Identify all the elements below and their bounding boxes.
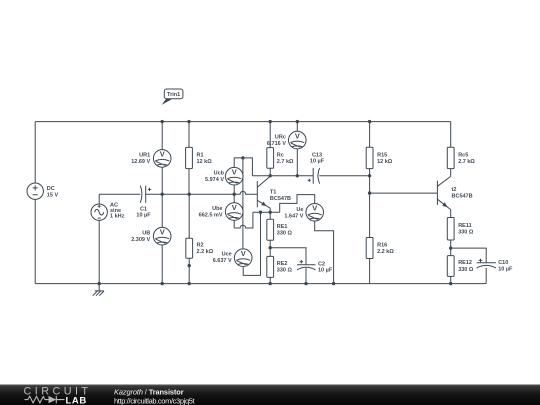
svg-text:R2: R2: [197, 243, 204, 249]
resistor RE2 330 Ohm: [267, 256, 293, 277]
wire Ue bottom loop: [315, 221, 334, 284]
svg-text:662.5 mV: 662.5 mV: [199, 213, 223, 219]
junction dots base node: [161, 193, 236, 196]
svg-text:BC547B: BC547B: [452, 194, 473, 200]
wire R1 leads: [188, 122, 190, 195]
svg-text:15 V: 15 V: [47, 192, 59, 198]
voltmeter Ube 662.5 mV: [199, 203, 243, 221]
transistor t2 BC547B: [437, 176, 472, 209]
svg-text:12.69 V: 12.69 V: [131, 159, 150, 165]
wire R2 leads: [188, 194, 190, 283]
svg-text:12 kΩ: 12 kΩ: [377, 159, 393, 165]
DC source V1 15 V: [27, 183, 58, 199]
annotation bubble Trin1: [162, 89, 183, 105]
wire RE11-RE12 junction to C10: [451, 248, 487, 263]
svg-text:Rc5: Rc5: [458, 152, 468, 158]
wire Rc5 to t2 collector: [450, 169, 452, 177]
svg-text:Ue: Ue: [296, 207, 303, 213]
junction dot RE1-RE2 node: [269, 246, 272, 249]
svg-text:DC: DC: [47, 186, 55, 192]
junction dots top bus: [161, 120, 372, 123]
svg-text:V: V: [295, 131, 300, 140]
voltmeter Ucb 5.974 V: [205, 167, 243, 185]
transistor T1 BC547B: [257, 176, 291, 208]
capacitor C10 10 uF: [477, 259, 513, 273]
svg-text:UR1: UR1: [139, 153, 150, 159]
svg-text:R1: R1: [197, 152, 204, 158]
svg-text:V: V: [232, 167, 237, 176]
resistor R16 2.2 kOhm: [366, 238, 394, 259]
voltmeter UB 2.309 V: [131, 227, 171, 245]
svg-text:12 kΩ: 12 kΩ: [197, 159, 213, 165]
wire C13 to R15: [319, 175, 369, 177]
resistor RE11 330 Ohm: [447, 218, 474, 241]
wire RE2 to bottom bus: [269, 277, 271, 283]
wire C10 bottom lead: [485, 268, 487, 284]
wire Uce bottom loop: [243, 212, 260, 275]
wire UB leads: [161, 194, 163, 283]
wire T1 emitter to RE1: [269, 208, 271, 219]
svg-text:UB: UB: [142, 231, 150, 237]
footer url text: [114, 397, 195, 405]
svg-text:Ube: Ube: [212, 206, 222, 212]
voltmeter URc 6.716 V: [267, 131, 306, 149]
junction dots emitter node: [259, 211, 272, 214]
svg-text:LAB: LAB: [66, 395, 87, 405]
wire left rail lower: [34, 199, 36, 283]
svg-text:1 kHz: 1 kHz: [110, 213, 125, 219]
svg-text:Rc: Rc: [277, 153, 284, 159]
resistor RE12 330 Ohm: [447, 256, 474, 277]
wire R16 bottom lead: [369, 259, 371, 284]
svg-text:URc: URc: [275, 135, 286, 141]
svg-text:R16: R16: [377, 242, 387, 248]
wire top bus: [35, 121, 451, 123]
junction dot RE11-RE12 node: [449, 246, 452, 249]
wire bottom bus: [35, 283, 486, 285]
wire t2 emitter to RE11: [450, 210, 452, 218]
svg-text:T1: T1: [270, 190, 276, 196]
junction dot t2 base node: [368, 191, 371, 194]
footer bar: [0, 384, 540, 405]
resistor RE1 330 Ohm: [267, 219, 293, 240]
svg-text:V: V: [232, 203, 237, 212]
svg-text:V: V: [160, 227, 165, 236]
svg-text:C2: C2: [318, 261, 325, 267]
wire RE11 to RE12: [450, 240, 452, 256]
wire emitter to Ue staircase: [280, 195, 315, 213]
svg-text:10 µF: 10 µF: [318, 267, 333, 273]
svg-text:RE1: RE1: [277, 224, 288, 230]
voltmeter Ue 1.647 V: [284, 204, 323, 222]
capacitor C2 10 uF: [297, 260, 333, 274]
voltmeter Uce 6.637 V: [213, 249, 252, 267]
resistor Rc5 2.7 kOhm: [447, 147, 475, 168]
wire URc leads: [296, 122, 298, 176]
svg-text:Trin1: Trin1: [167, 92, 180, 98]
svg-text:330 Ω: 330 Ω: [458, 267, 474, 273]
svg-text:Ucb: Ucb: [214, 171, 225, 177]
svg-text:V: V: [312, 204, 317, 213]
wire RE1 to RE2: [269, 240, 271, 256]
capacitor C13 10 uF: [308, 152, 325, 183]
svg-text:C13: C13: [312, 152, 322, 158]
wire C2 bottom lead: [305, 268, 307, 284]
wire left rail upper: [34, 122, 36, 183]
wire Ucb top measurement loop: [234, 158, 252, 176]
wire R15 to R16: [369, 169, 371, 238]
svg-text:V: V: [160, 150, 165, 159]
wire Uce top lead: [242, 158, 244, 249]
svg-text:Kazgroth / Transistor: Kazgroth / Transistor: [114, 387, 184, 396]
wire AC source bottom lead: [98, 220, 100, 283]
node dot R2 bottom lead: [188, 264, 191, 267]
svg-text:2.2 kΩ: 2.2 kΩ: [377, 249, 394, 255]
capacitor C1 10 uF: [136, 186, 151, 219]
wire Rc5 top lead: [450, 122, 452, 148]
svg-text:10 µF: 10 µF: [136, 213, 151, 219]
svg-text:C10: C10: [498, 260, 508, 266]
ground: [93, 284, 104, 296]
svg-text:http://circuitlab.com/c3pjq5t: http://circuitlab.com/c3pjq5t: [114, 397, 195, 405]
AC source sine 1 kHz: [91, 203, 125, 221]
wire collector node horizontal: [252, 175, 313, 177]
svg-text:6.716 V: 6.716 V: [267, 141, 286, 147]
svg-text:330 Ω: 330 Ω: [277, 268, 293, 274]
wire RE1-RE2 junction to C2: [270, 248, 306, 265]
wire Ucb bottom to Ube top link: [233, 185, 235, 203]
wire R15 top lead: [369, 122, 371, 148]
resistor R2 2.2 kOhm: [186, 238, 214, 258]
svg-text:2.7 kΩ: 2.7 kΩ: [277, 159, 294, 165]
resistor R15 12 kOhm: [366, 147, 393, 168]
wire base node segment C1 to T1 base with hop: [146, 191, 258, 194]
wire AC source top lead: [98, 194, 100, 204]
svg-text:BC547B: BC547B: [270, 196, 291, 202]
wire base node left segment: [99, 193, 140, 195]
svg-text:RE11: RE11: [458, 223, 471, 229]
svg-text:RE2: RE2: [277, 261, 288, 267]
resistor Rc 2.7 kOhm: [267, 148, 294, 169]
svg-text:R15: R15: [377, 152, 387, 158]
svg-text:6.637 V: 6.637 V: [213, 258, 232, 264]
wire UR1 leads: [161, 122, 163, 195]
svg-text:10 µF: 10 µF: [498, 267, 513, 273]
wire Rc leads: [269, 122, 271, 176]
junction dots bottom bus: [98, 282, 453, 285]
svg-text:t2: t2: [452, 187, 457, 193]
svg-text:330 Ω: 330 Ω: [458, 230, 474, 236]
junction dots collector node: [241, 156, 371, 177]
resistor R1 12 kOhm: [186, 147, 213, 168]
wire emitter node horizontal: [253, 211, 280, 213]
svg-text:5.974 V: 5.974 V: [205, 177, 224, 183]
footer title text: [114, 387, 184, 396]
svg-text:330 Ω: 330 Ω: [277, 230, 293, 236]
CircuitLab logo: [24, 386, 91, 405]
svg-text:2.7 kΩ: 2.7 kΩ: [458, 159, 475, 165]
svg-text:2.2 kΩ: 2.2 kΩ: [197, 249, 214, 255]
wire t2 base: [370, 192, 438, 194]
svg-text:V: V: [241, 249, 246, 258]
svg-text:2.309 V: 2.309 V: [131, 237, 150, 243]
svg-text:RE12: RE12: [458, 260, 472, 266]
svg-text:10 µF: 10 µF: [310, 159, 325, 165]
svg-text:1.647 V: 1.647 V: [284, 213, 303, 219]
wire RE12 bottom lead: [450, 276, 452, 283]
svg-text:Uce: Uce: [222, 252, 232, 258]
svg-text:C1: C1: [140, 206, 147, 212]
voltmeter UR1 12.69 V: [131, 150, 171, 168]
wire Ube bottom loop with hop: [234, 212, 253, 228]
